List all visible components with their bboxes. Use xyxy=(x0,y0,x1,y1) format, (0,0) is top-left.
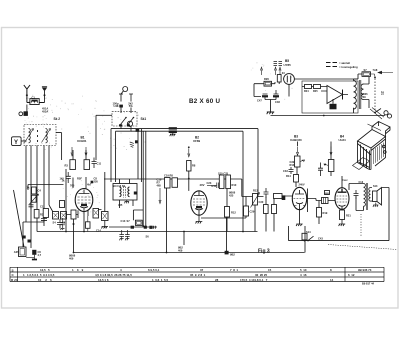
up arrow a xyxy=(260,67,262,75)
IFT1 coil a xyxy=(120,187,122,197)
dial lamp xyxy=(284,74,295,85)
voltage arrow under B1 b xyxy=(85,147,87,156)
svg-text:R11: R11 xyxy=(212,184,217,188)
svg-text:12: 12 xyxy=(381,91,385,95)
tube B2 cathode xyxy=(195,209,203,216)
speaker xyxy=(373,191,378,202)
svg-text:S8 C16 S9: S8 C16 S9 xyxy=(113,184,126,188)
svg-text:30 26 25: 30 26 25 xyxy=(255,273,267,277)
svg-text:C43: C43 xyxy=(318,237,323,241)
wire column e xyxy=(49,146,53,213)
rectifier block frame xyxy=(302,81,358,113)
opt top flange xyxy=(358,130,386,156)
svg-text:S13: S13 xyxy=(373,185,378,188)
tube B2 grids xyxy=(193,199,205,205)
opt base flange xyxy=(353,158,370,170)
negative feedback wire xyxy=(289,188,390,241)
bottom bus second xyxy=(74,252,305,254)
left small box C9 xyxy=(60,201,65,208)
IF transformer 2 coil a xyxy=(219,175,224,189)
cap C35 xyxy=(325,191,330,195)
tone switch blade xyxy=(308,236,314,240)
ground ticks left of wire xyxy=(130,142,134,147)
cathode wire B2 xyxy=(201,217,246,219)
svg-text:B9 817 44: B9 817 44 xyxy=(362,282,375,286)
diode plates B3 xyxy=(295,205,306,207)
mains dashed link xyxy=(374,77,376,79)
opt body right xyxy=(364,139,386,170)
ballast box xyxy=(277,75,281,83)
svg-text:R14: R14 xyxy=(286,174,291,178)
svg-text:Sk1: Sk1 xyxy=(141,117,147,121)
svg-text:C48: C48 xyxy=(275,100,280,104)
switch blade xyxy=(375,109,381,113)
blob on bus c xyxy=(225,251,229,255)
cap C33 xyxy=(289,167,294,174)
selenium rectifier triangle xyxy=(327,86,343,104)
svg-text:R12: R12 xyxy=(231,211,236,215)
speaker ground xyxy=(373,203,379,207)
svg-text:R25: R25 xyxy=(313,90,318,93)
svg-text:R10: R10 xyxy=(232,183,237,187)
voltage arrow under B4 xyxy=(330,147,332,156)
tube B2 cathode blob xyxy=(196,206,202,208)
A05 connector xyxy=(19,247,27,257)
wires above tube B1 xyxy=(66,150,86,232)
output transformer core xyxy=(366,183,367,210)
osc grid wire xyxy=(56,133,62,160)
svg-text:C4: C4 xyxy=(38,189,42,193)
small box under tube1 xyxy=(86,222,91,229)
IF transformer 2 coil b xyxy=(226,175,231,189)
bus drop double b xyxy=(145,131,147,226)
switch rotor circle xyxy=(127,121,132,126)
horizontal link left xyxy=(28,185,64,191)
detector vertical wire xyxy=(246,197,253,219)
svg-text:1 0,6 1 5,5: 1 0,6 1 5,5 xyxy=(152,278,168,282)
bus left drop a xyxy=(110,129,112,182)
svg-text:S6: S6 xyxy=(146,235,150,239)
blob under label xyxy=(119,105,123,108)
osc blob b xyxy=(144,226,147,229)
resistor R15 xyxy=(272,205,277,214)
capacitor C5 xyxy=(29,202,34,209)
svg-text:S4: S4 xyxy=(53,220,57,224)
cap C31 xyxy=(264,188,269,198)
chassis bottom bus xyxy=(37,231,258,233)
svg-text:4 16: 4 16 xyxy=(300,273,307,277)
ground under S6 xyxy=(101,221,108,229)
resistor R17 xyxy=(295,156,301,167)
heater drop x96 xyxy=(95,115,97,160)
volume pot R13 xyxy=(253,194,258,206)
Y input terminal xyxy=(12,137,22,146)
tube B3 UABC80 envelope xyxy=(292,187,306,209)
svg-text:UABC80: UABC80 xyxy=(290,138,302,142)
tuning coil L1 xyxy=(29,129,31,143)
smoothing cap C50 xyxy=(330,104,337,110)
svg-text:7A8: 7A8 xyxy=(373,68,378,72)
fuse box R26 xyxy=(264,81,272,86)
heater stub left xyxy=(96,114,112,116)
resistor R3b xyxy=(34,210,39,219)
svg-text:10 2 6: 10 2 6 xyxy=(38,278,52,282)
opt terminals xyxy=(383,145,386,148)
resistor R14 xyxy=(264,205,269,214)
left tuning box xyxy=(43,209,48,218)
svg-text:46V: 46V xyxy=(325,192,330,196)
heater drop from cluster xyxy=(166,188,168,253)
tube B1 anode xyxy=(79,190,90,194)
svg-text:= aan/uit: = aan/uit xyxy=(339,61,350,65)
bus drop x138 xyxy=(104,131,154,179)
tube B4 grids xyxy=(337,196,348,202)
resistor R6 xyxy=(84,160,90,170)
grid resistor R8v xyxy=(187,161,191,172)
svg-text:C29: C29 xyxy=(250,210,255,214)
coupling box a xyxy=(165,178,171,189)
power wires left xyxy=(254,79,358,97)
svg-text:409: 409 xyxy=(178,248,183,252)
svg-text:465: 465 xyxy=(157,183,162,187)
svg-text:S7: S7 xyxy=(127,219,131,223)
junction blob a xyxy=(23,236,26,239)
antenna coil S1 xyxy=(30,99,39,105)
tube B4 UL84 envelope xyxy=(335,188,349,210)
wire column d xyxy=(43,146,45,223)
capacitor C6 xyxy=(41,214,47,226)
HT bus lower line xyxy=(116,130,244,132)
diagonal crease line xyxy=(328,245,397,250)
resistor R20 xyxy=(328,160,334,172)
wires above B3 xyxy=(296,142,298,188)
svg-text:465: 465 xyxy=(118,203,123,207)
svg-text:220: 220 xyxy=(94,179,99,183)
junction dot heater xyxy=(323,115,325,117)
svg-text:709: 709 xyxy=(362,96,367,99)
capacitor C10 xyxy=(66,172,71,183)
diagonal routing wire xyxy=(14,190,25,247)
svg-text:1 1 2,5 3 4 5 9 4 4 0,5: 1 1 2,5 3 4 5 9 4 4 0,5 xyxy=(23,273,55,277)
cathode resistor R8 xyxy=(71,210,76,219)
FM dipole circle xyxy=(123,87,128,92)
svg-text:UY85: UY85 xyxy=(284,63,292,67)
bus junction dots xyxy=(65,231,67,233)
cap C47 xyxy=(263,94,268,100)
mains switch S7 xyxy=(358,74,362,79)
wire column c xyxy=(36,146,38,232)
osc cap gnd a xyxy=(119,230,124,240)
component on bus d xyxy=(302,233,307,240)
svg-text:R3: R3 xyxy=(65,164,69,168)
tube B4 anode xyxy=(338,189,347,192)
grid cap blob B3 xyxy=(282,195,286,200)
svg-text:R21: R21 xyxy=(346,214,351,218)
junction blob b xyxy=(28,240,31,243)
small black component on wire xyxy=(135,140,138,143)
plate coupling cap C23 xyxy=(207,183,219,189)
opt upper bracket xyxy=(372,122,390,137)
svg-text:409: 409 xyxy=(69,256,74,260)
wire column a xyxy=(25,146,27,223)
svg-text:Cων: Cων xyxy=(342,178,348,182)
svg-text:28: 28 xyxy=(215,278,219,282)
stub tick b xyxy=(129,94,133,102)
svg-text:UF89: UF89 xyxy=(193,139,200,143)
IFT1 wires xyxy=(120,179,134,208)
IFT1 cap blob xyxy=(134,192,137,195)
svg-text:UL84: UL84 xyxy=(339,138,346,142)
wire antenna to trimmer xyxy=(26,105,28,113)
voltage arrow under B1 a xyxy=(71,147,73,156)
svg-text:425: 425 xyxy=(229,193,234,197)
voltage arrow under B3 xyxy=(296,147,298,156)
bus drop x141 xyxy=(140,129,142,182)
svg-text:R5F: R5F xyxy=(77,176,82,180)
osc blob a xyxy=(131,226,134,229)
svg-text:R13: R13 xyxy=(290,163,295,167)
tube B2 UF89 envelope xyxy=(191,191,207,215)
tube B2 anode xyxy=(194,191,204,196)
mains plug xyxy=(384,111,388,115)
svg-text:13,5 1 6: 13,5 1 6 xyxy=(98,278,109,282)
switch contacts xyxy=(37,130,39,142)
rectifier resistor b xyxy=(314,85,321,89)
svg-text:765: 765 xyxy=(70,183,75,187)
tube B3 pins xyxy=(296,210,303,226)
svg-text:S7: S7 xyxy=(364,68,368,72)
svg-text:37: 37 xyxy=(200,268,204,272)
decoupling cap C15 on bus xyxy=(169,127,177,129)
svg-text:C30: C30 xyxy=(259,200,264,204)
output transformer secondary xyxy=(369,188,371,202)
wire column b xyxy=(30,146,32,249)
tube B3 right wire xyxy=(306,189,309,213)
svg-text:S10 C25: S10 C25 xyxy=(218,171,229,175)
AGC arrow under B2 label xyxy=(188,149,190,157)
svg-text:R8: R8 xyxy=(192,164,196,168)
svg-text:R24: R24 xyxy=(304,90,309,93)
heater chain dashes a xyxy=(274,62,278,66)
legend line 1 xyxy=(326,62,337,64)
ground under R21 xyxy=(339,220,346,227)
tube B1 UCH81 envelope xyxy=(75,189,93,212)
resistor R16 horizontal xyxy=(274,194,283,199)
dotted feedback line xyxy=(360,214,362,236)
svg-text:= toonregeling: = toonregeling xyxy=(339,65,358,69)
stub tick a xyxy=(119,93,123,95)
svg-text:170,5 4 101,8 0,1 7: 170,5 4 101,8 0,1 7 xyxy=(240,278,268,282)
svg-text:5 10: 5 10 xyxy=(300,268,307,272)
antenna symbol xyxy=(24,85,45,103)
Sk1 bottom stubs xyxy=(121,126,131,131)
detector wires xyxy=(255,193,293,232)
svg-text:Y: Y xyxy=(14,140,18,146)
junction to ground xyxy=(265,100,276,113)
resistor R3 xyxy=(32,250,36,255)
resistor R12 xyxy=(225,207,230,218)
svg-text:C19 R8: C19 R8 xyxy=(164,173,173,177)
bus right drop a xyxy=(242,131,244,231)
svg-text:B2 X 60 U: B2 X 60 U xyxy=(189,98,220,105)
rectifier resistor a xyxy=(305,85,312,89)
cathode resistor R21 xyxy=(340,210,345,220)
transformer secondary xyxy=(361,84,364,100)
ground below R3 xyxy=(26,255,34,259)
band switch dashed box xyxy=(24,125,56,146)
IFT1 core xyxy=(124,187,126,198)
resistor R2 pot xyxy=(32,195,37,202)
tube B3 anode xyxy=(295,190,304,194)
svg-text:9B 936 73: 9B 936 73 xyxy=(358,268,372,272)
resistor R19 xyxy=(317,208,322,218)
tube B1 grids xyxy=(78,197,91,203)
detector coupling box xyxy=(244,206,249,216)
IF transformer S8 S9 box xyxy=(113,184,137,201)
wires around S6 xyxy=(98,172,105,212)
svg-text:6 9,5 0,1: 6 9,5 0,1 xyxy=(148,268,160,272)
heater chain dashes b xyxy=(279,62,283,66)
bus junction blob xyxy=(136,129,140,132)
tuning coil L2 xyxy=(46,129,48,143)
HT bus upper line xyxy=(111,128,258,130)
cap C40 xyxy=(354,190,359,199)
osc coil S5 xyxy=(61,212,67,220)
resistor R5 xyxy=(70,160,76,170)
osc cap end xyxy=(154,226,156,229)
resistor R1 left chain xyxy=(32,187,37,194)
svg-text:15: 15 xyxy=(268,268,272,272)
power ground xyxy=(267,112,275,114)
svg-text:C11: C11 xyxy=(40,205,45,209)
wires B3 to B4 xyxy=(307,199,336,225)
svg-text:4,5 3 1 8 30,5 26 26 75 11,5: 4,5 3 1 8 30,5 26 26 75 11,5 xyxy=(95,273,132,277)
bus drop double a xyxy=(142,131,144,226)
wire grid resistor to tube xyxy=(188,171,190,191)
osc route wire xyxy=(133,210,143,220)
transformer primary winding xyxy=(354,81,357,109)
svg-text:C33: C33 xyxy=(283,169,288,173)
svg-text:453A: 453A xyxy=(42,109,48,113)
trimmer C1 xyxy=(19,112,23,116)
wires into Sk1 xyxy=(121,108,131,114)
opt laminations xyxy=(374,143,384,165)
svg-text:S14: S14 xyxy=(306,230,311,234)
rectifier wires xyxy=(302,87,348,104)
IFT1 coil b xyxy=(128,187,130,197)
cap C48 xyxy=(274,90,279,100)
mains lead xyxy=(368,108,385,131)
osc blob c xyxy=(149,226,152,229)
svg-text:40V: 40V xyxy=(200,183,205,187)
cap ground left bottom xyxy=(61,218,66,230)
bus link b xyxy=(183,232,185,246)
speaker wires xyxy=(371,188,373,202)
tube B3 grid xyxy=(294,198,305,200)
svg-text:1 3 9: 1 3 9 xyxy=(72,268,84,272)
up arrow c xyxy=(279,67,281,75)
switch blade a xyxy=(121,118,127,125)
cathode drop to bus xyxy=(73,224,75,253)
switch contact blobs xyxy=(119,124,122,126)
svg-text:C13: C13 xyxy=(121,219,126,223)
ground arrow mid xyxy=(159,188,161,204)
tube B1 cathode blob xyxy=(81,204,87,206)
svg-text:C47: C47 xyxy=(257,99,262,103)
svg-text:4k7: 4k7 xyxy=(87,183,92,187)
small blob near C8 xyxy=(91,181,94,184)
IFT1 ground xyxy=(124,200,129,203)
osc row wire xyxy=(109,226,157,228)
svg-text:U48: U48 xyxy=(114,104,119,108)
svg-text:R13: R13 xyxy=(253,189,258,193)
wire Y to switch xyxy=(21,140,26,142)
svg-text:9B2: 9B2 xyxy=(230,253,235,257)
svg-text:35 9 2 8 1: 35 9 2 8 1 xyxy=(190,273,206,277)
ground under C15 xyxy=(170,133,176,136)
svg-text:Sk 2: Sk 2 xyxy=(54,117,61,121)
coupling cap C36 xyxy=(322,198,329,204)
svg-text:S: S xyxy=(12,268,14,272)
svg-text:A05: A05 xyxy=(14,250,19,254)
coupling boxes right of B1 xyxy=(93,209,99,219)
legend line 2 xyxy=(326,66,337,68)
svg-text:6 12: 6 12 xyxy=(348,273,355,277)
svg-text:C11: C11 xyxy=(97,162,102,166)
osc padder C12 xyxy=(57,219,63,229)
cap C41 xyxy=(318,163,323,177)
earth electrode arrow xyxy=(42,86,47,88)
svg-text:7 8 1: 7 8 1 xyxy=(230,268,238,272)
resistor R18 small xyxy=(294,175,299,183)
output transformer S13 primary xyxy=(364,184,366,207)
svg-text:R26: R26 xyxy=(264,77,269,81)
osc cap gnd b xyxy=(125,230,130,240)
svg-text:240V: 240V xyxy=(299,183,305,187)
svg-text:R19: R19 xyxy=(323,211,328,215)
svg-text:14: 14 xyxy=(330,278,334,282)
bus right drop b xyxy=(257,129,259,193)
svg-text:Fig 3: Fig 3 xyxy=(258,249,270,255)
svg-text:UCH81: UCH81 xyxy=(77,139,87,143)
bus left drop b xyxy=(115,131,117,182)
tube B4 cathode xyxy=(339,205,346,210)
plate agc line xyxy=(154,179,246,197)
up arrow b xyxy=(274,67,276,75)
switch Sk1 dashed box xyxy=(112,112,137,126)
svg-text:C1: C1 xyxy=(32,95,36,99)
osc coil S4 xyxy=(53,212,59,220)
tube B3 cathode xyxy=(296,203,303,210)
capacitor C9 xyxy=(92,158,97,169)
bus link d xyxy=(304,226,306,253)
svg-text:12,5 5: 12,5 5 xyxy=(40,268,50,272)
bus link c xyxy=(226,218,228,253)
osc trimmer double box xyxy=(135,220,142,225)
table frame xyxy=(10,267,384,281)
svg-text:R 20: R 20 xyxy=(11,278,18,282)
opt body mid window xyxy=(359,145,370,170)
coupling box b xyxy=(172,178,178,188)
switch blade b xyxy=(128,118,134,125)
tube B1 pin wires xyxy=(78,210,88,232)
arrow to mains xyxy=(378,71,393,74)
transformer wires xyxy=(349,184,364,211)
transformer core lines xyxy=(359,80,361,109)
tube B1 cathode xyxy=(80,207,88,211)
tube B2 ground xyxy=(196,215,203,223)
wire join left xyxy=(23,222,44,247)
